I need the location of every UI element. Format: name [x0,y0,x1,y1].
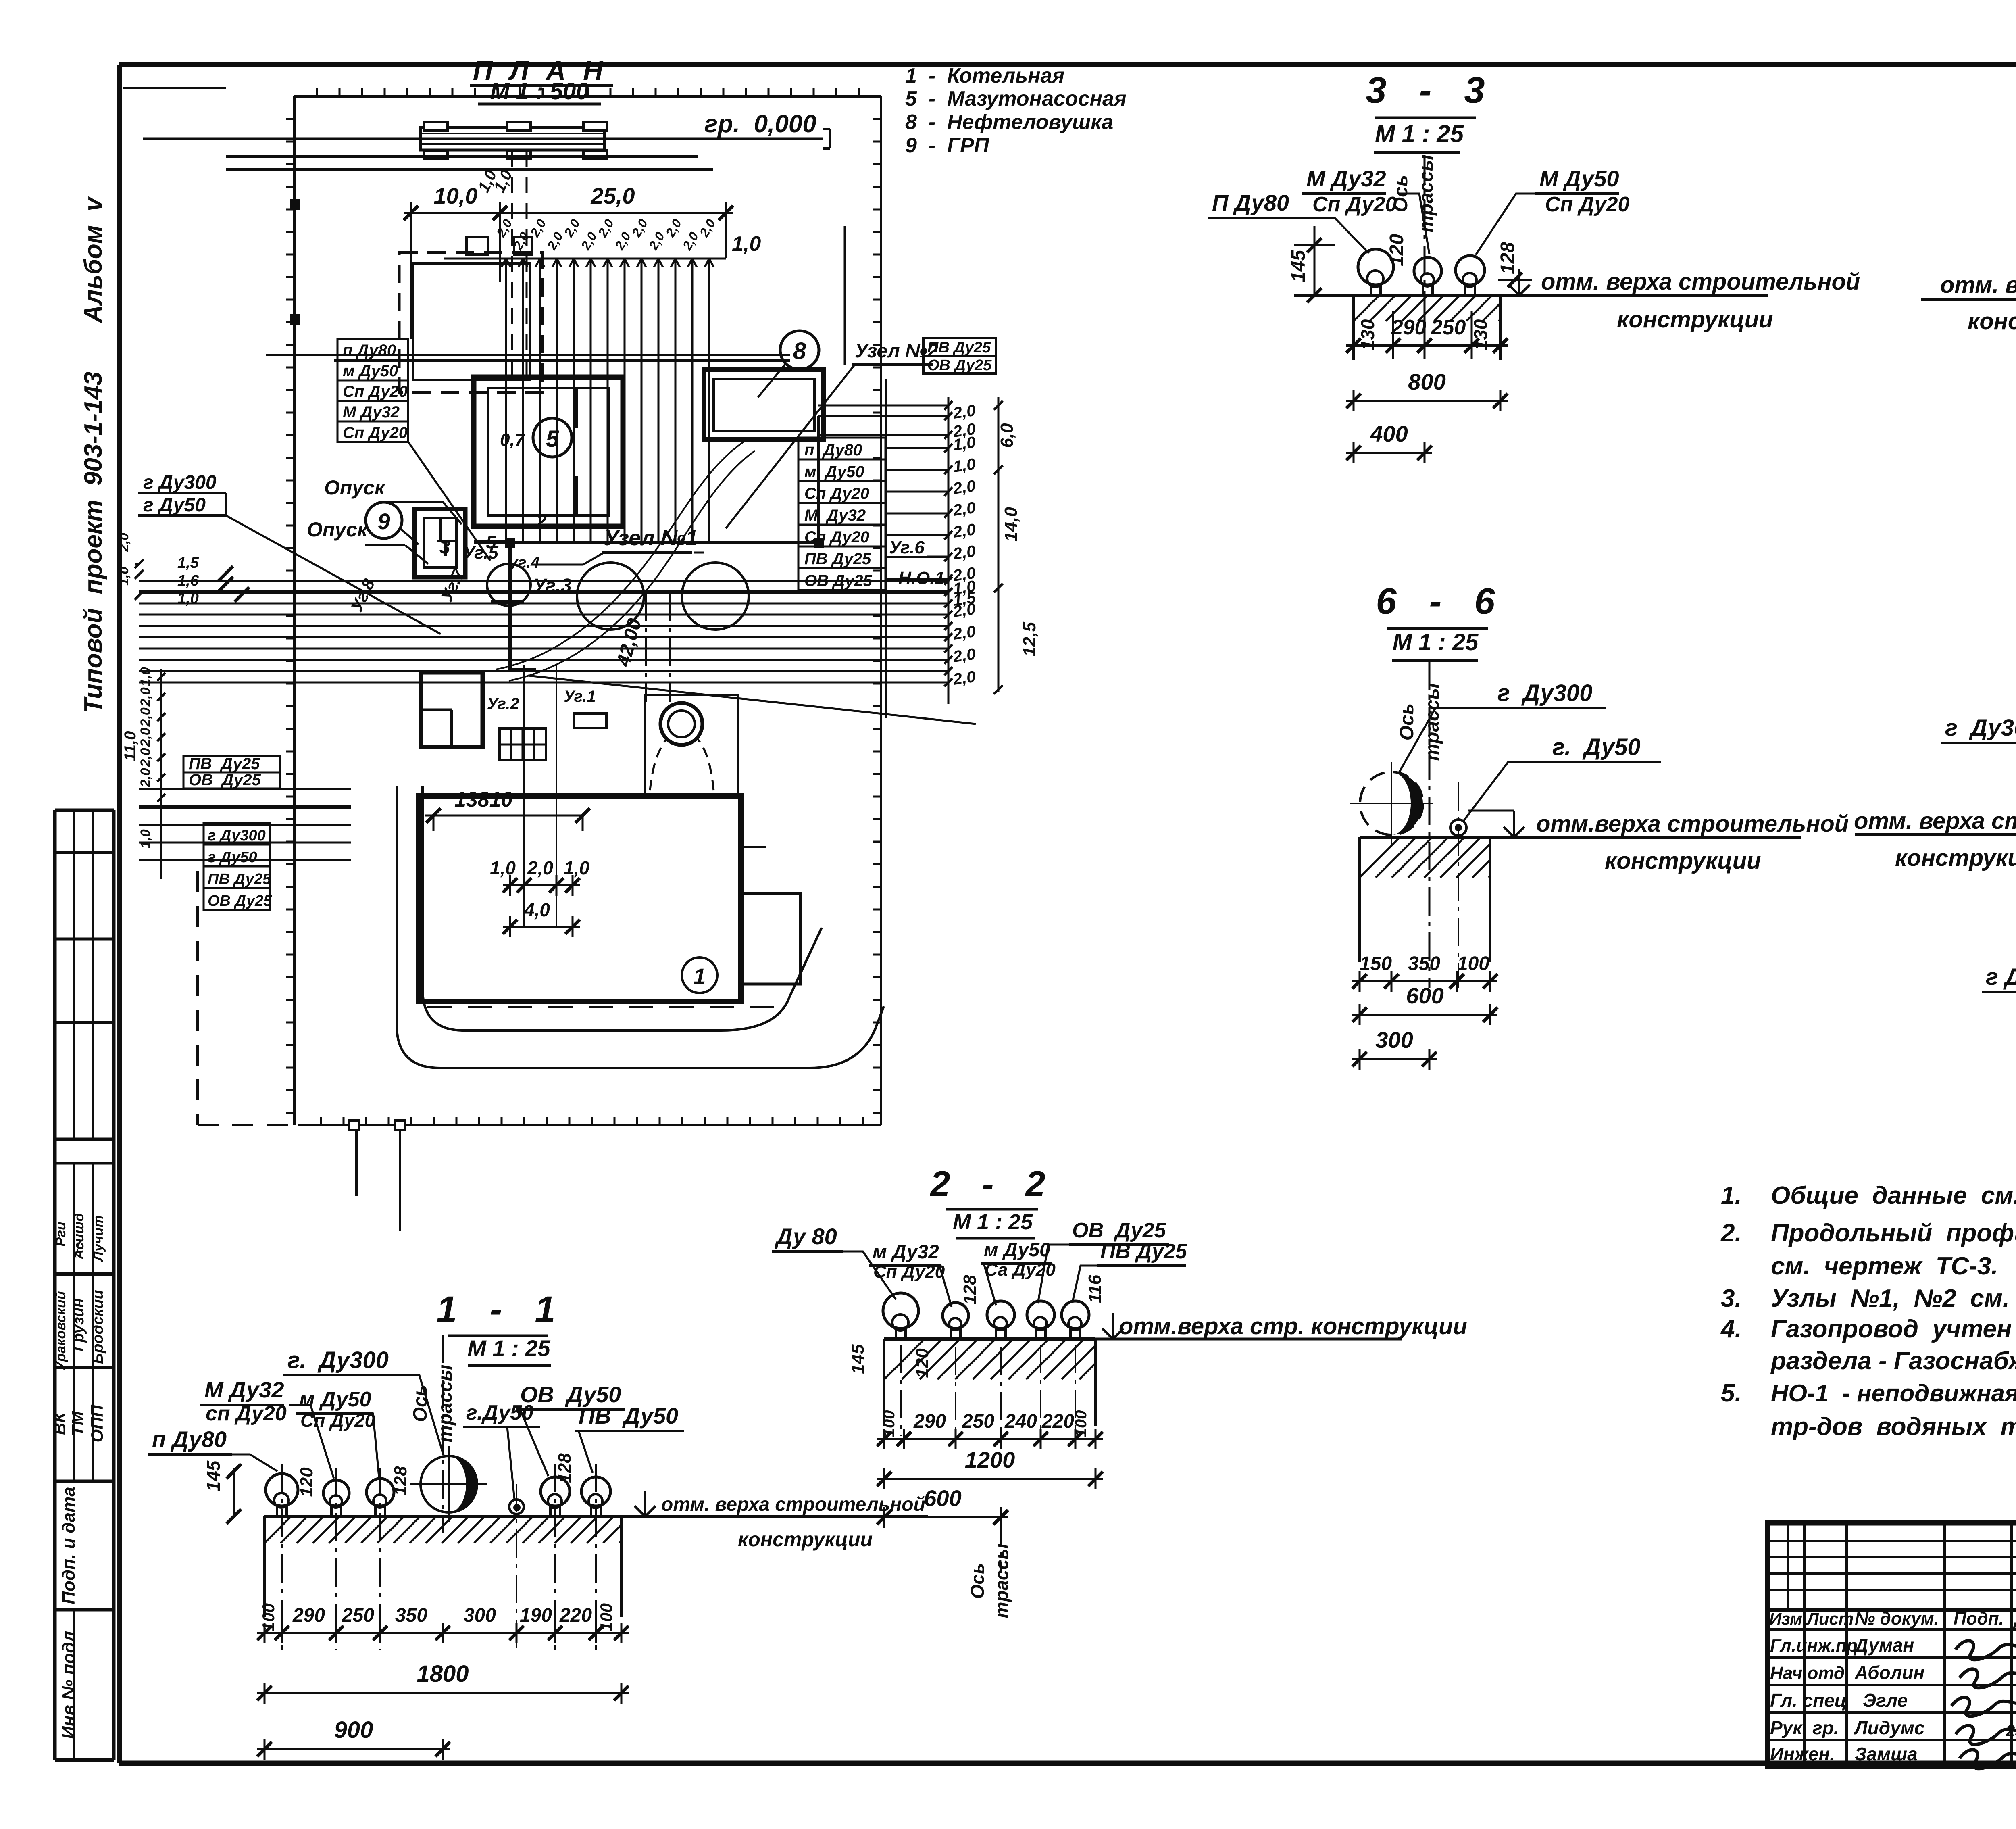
svg-text:Узлы №1, №2 см. чертеж ТС-: Узлы №1, №2 см. чертеж ТС-4. [1771,1285,2016,1312]
section 1-1 ground line [264,1515,928,1518]
section 1-1 dim 128 right [555,1453,575,1483]
svg-text:1,6: 1,6 [177,572,199,589]
svg-text:4,0: 4,0 [524,899,550,920]
svg-text:Продольный профиль тепловых: Продольный профиль тепловых сетей [1771,1219,2016,1247]
building 8 circle mark [758,331,819,397]
section 3-3 label P Du80 [1208,190,1369,253]
angle labels [347,511,948,713]
svg-text:Гл. спец: Гл. спец [1770,1690,1847,1711]
section 3-3 label M Du50 Sp Du20 [1476,166,1629,255]
building 5 Mazutonasosnaya [474,377,623,526]
svg-text:2,0: 2,0 [952,521,977,541]
section 1-1 pipe P Du80 [266,1464,298,1650]
svg-text:тр-дов водяных тепловых сет: тр-дов водяных тепловых сетей Ду50. [1771,1413,2016,1441]
svg-text:4.: 4. [1720,1315,1742,1343]
section 3-3 label M Du32 Sp Du20 [1302,166,1429,254]
section 2-2 dim 145 [848,1344,868,1374]
svg-text:1200: 1200 [965,1447,1015,1472]
svg-text:1 - 1: 1 - 1 [436,1289,559,1330]
svg-text:2,0: 2,0 [952,402,977,422]
svg-text:Опуск: Опуск [307,518,369,541]
svg-text:конструкции: конструкции [1605,848,1761,874]
section 2-2 ground line [884,1337,1402,1341]
svg-text:Аболин: Аболин [1854,1662,1924,1683]
svg-text:1 - Котельная: 1 - Котельная [905,64,1064,88]
svg-text:г Ду300: г Ду300 [208,827,266,844]
building 8 Nefteloovushka [704,370,824,440]
section 2-2 dim 120 [912,1348,932,1378]
svg-text:М 1 : 25: М 1 : 25 [1393,629,1479,655]
title block grid [1768,1523,2016,1766]
svg-text:НО-1 - неподвижная опора дл: НО-1 - неподвижная опора для крепления т… [1771,1380,2016,1407]
building 1 circle mark [682,957,717,993]
svg-text:М 1 : 500: М 1 : 500 [490,78,589,104]
opusk label 1 [324,476,462,524]
section 6-6 big pipe g Du300 [1350,762,1433,845]
section 3-3 pipe M Du32 [1414,257,1441,295]
leader to right stack [528,676,976,724]
svg-text:Сп Ду20: Сп Ду20 [1545,193,1629,216]
small sheds above building 5 [467,237,532,254]
svg-text:3.: 3. [1721,1285,1742,1312]
svg-text:М Ду32: М Ду32 [804,507,866,524]
svg-text:3 - 3: 3 - 3 [1366,70,1489,111]
section 3-3 title [1366,70,1489,152]
svg-text:М Ду50: М Ду50 [1539,166,1619,191]
boiler equipment above building 1 [645,695,738,795]
uzel no1 circles [577,563,749,630]
svg-text:трассы: трассы [435,1364,456,1442]
building dashed top-left [399,252,543,392]
section 1-1 dim 128 left [391,1466,410,1496]
section 2-2 label PV Du25 [1073,1240,1187,1302]
svg-text:2,0: 2,0 [527,857,553,878]
svg-text:П Ду80: П Ду80 [1212,190,1289,215]
svg-text:2,0: 2,0 [952,499,977,519]
plan legend [905,64,1127,157]
svg-text:130: 130 [1357,319,1378,350]
opusk label 2 [307,518,428,564]
road below railway [226,156,790,361]
svg-text:раздела - Газоснабжение.: раздела - Газоснабжение. [1770,1347,2016,1375]
dim 1,0 2,0 1,0 / 4,0 [490,665,589,937]
section 5-5 label g Du300 [1941,715,2016,786]
svg-text:250: 250 [1431,316,1466,339]
svg-text:г Ду50: г Ду50 [143,494,206,516]
section 2-2 label OV Du25 [1038,1219,1169,1303]
section 3-3 ground line [1294,294,1768,297]
section 2-2 label M Du32 [869,1241,952,1307]
building 9 GRP [414,509,465,577]
rotated dim 42.00 [612,593,670,702]
svg-text:Сп Ду20: Сп Ду20 [804,528,869,546]
svg-text:гр. 0,000: гр. 0,000 [704,110,816,138]
right label stack 7 rows [798,438,885,590]
svg-text:ПВ Ду25: ПВ Ду25 [927,339,991,356]
svg-text:1,0: 1,0 [732,232,761,256]
section 6-6 label g Du50 [1464,734,1661,821]
svg-text:ПВ Ду25: ПВ Ду25 [1100,1240,1187,1263]
svg-text:190: 190 [520,1605,552,1626]
svg-text:300: 300 [1375,1027,1413,1053]
site boundary fence right [873,96,881,1125]
main heat corridor bundle [139,581,948,682]
svg-text:М 1 : 25: М 1 : 25 [953,1210,1033,1234]
section 2-2 dim 1200 [877,1447,1103,1489]
section 5-5 label g Du50 [1982,830,2016,992]
section 3-3 axis of route [1390,154,1437,311]
svg-text:1.: 1. [1721,1182,1742,1210]
dim 13810 [425,788,590,831]
svg-text:Инжен.: Инжен. [1770,1743,1835,1764]
vertical pipe bundle from railway [444,217,726,542]
small tank grid [500,728,546,760]
svg-text:Изм.: Изм. [1769,1609,1807,1628]
svg-text:конструкции: конструкции [1968,308,2016,334]
svg-text:М Ду32: М Ду32 [343,403,400,421]
section 5-5 note otm verha [1854,808,2016,871]
svg-text:отм.верха строительной: отм.верха строительной [1536,811,1849,837]
margin text: Tipovoy proekt 903-1-143 [79,372,107,713]
section 1-1 dim 145 [203,1460,241,1524]
section 2-2 pipe P Du80 [883,1293,918,1436]
svg-text:ОВ Ду25: ОВ Ду25 [208,893,272,909]
svg-text:Уг.1: Уг.1 [564,688,596,705]
svg-text:Общие данные см. чертеж ТС: Общие данные см. чертеж ТС-1 . [1771,1182,2016,1210]
section 1-1 label g Du50 [463,1401,540,1499]
svg-text:Лист: Лист [1806,1609,1854,1628]
svg-text:м Ду50: м Ду50 [804,463,864,481]
gr 0.000 ground line [143,110,830,148]
section 3-3 note otm verha [1509,269,1860,333]
section 2-2 note otm verha str [1102,1313,1467,1339]
lower left label stack 4 rows [204,823,272,910]
section 3-3 dim 400 [1346,421,1432,463]
section 6-6 small pipe g Du50 [1450,782,1466,988]
section 3-3 dim chain 130-290-250-130 [1346,311,1508,359]
svg-text:250: 250 [962,1411,994,1432]
left label box 5 rows [337,339,490,561]
section 2-2 pipe M Du32 [943,1303,968,1436]
section 1-1 foundation hatch [264,1516,621,1617]
svg-text:128: 128 [1497,242,1518,274]
label N.O.1 [898,568,945,588]
svg-text:Бродский: Бродский [90,1290,106,1364]
sidebar signatures [53,1213,106,1371]
svg-text:2.: 2. [1720,1219,1742,1247]
section 1-1 label M Du50 [296,1388,379,1477]
small rect left of boiler [574,713,606,728]
section 1-1 label P Du80 [148,1426,277,1471]
svg-text:1,0: 1,0 [138,667,153,686]
svg-text:отм. верха строительной: отм. верха строительной [661,1494,925,1515]
svg-text:350: 350 [395,1605,427,1626]
svg-text:2,0: 2,0 [952,623,977,643]
svg-text:128: 128 [960,1275,980,1305]
upper right pipe stubs [818,379,948,718]
svg-text:отм. верха строит.: отм. верха строит. [1940,272,2016,298]
svg-text:Типовой проект 903-1-143: Типовой проект 903-1-143 [79,372,107,713]
svg-text:ОВ Ду25: ОВ Ду25 [804,572,872,590]
svg-text:290: 290 [1391,316,1427,339]
svg-text:Думан: Думан [1853,1635,1914,1656]
svg-text:220: 220 [559,1605,592,1626]
lower label box PV/OV Du25 [183,755,280,789]
fixed support squares [506,539,823,547]
svg-text:Сп Ду20: Сп Ду20 [1312,193,1397,216]
section 2-2 dim chain row [877,1410,1103,1449]
svg-text:1800: 1800 [417,1661,469,1687]
svg-text:1,0: 1,0 [138,829,153,848]
svg-text:Ду 80: Ду 80 [775,1224,837,1249]
sidebar stamp table [55,810,114,1760]
svg-text:Ось: Ось [967,1563,988,1599]
svg-text:№ докум.: № докум. [1855,1609,1939,1629]
svg-text:2,0: 2,0 [952,668,977,688]
svg-text:5: 5 [486,532,497,553]
section 6-6 foundation hatch [1360,837,1490,962]
svg-text:конструкции: конструкции [1895,845,2016,871]
svg-text:14,0: 14,0 [1001,507,1021,542]
svg-text:м Ду50: м Ду50 [984,1239,1050,1261]
svg-text:2,0: 2,0 [952,542,977,563]
svg-text:Сп Ду20: Сп Ду20 [343,424,408,442]
svg-text:Уг.3: Уг.3 [533,575,572,596]
svg-text:п Ду80: п Ду80 [804,441,862,459]
corridor thick line Ug5-Ug6 [474,416,818,670]
svg-text:конструкции: конструкции [738,1528,873,1551]
svg-text:2,0: 2,0 [952,645,977,666]
right side 2,0 dim column [944,397,1039,704]
svg-text:6 - 6: 6 - 6 [1376,581,1499,622]
svg-text:0,7: 0,7 [500,430,526,450]
svg-text:м Ду32: м Ду32 [873,1241,939,1263]
svg-text:100: 100 [880,1410,898,1437]
svg-text:ПВ Ду50: ПВ Ду50 [579,1403,678,1429]
section 6-6 title [1376,581,1499,661]
svg-text:1,5: 1,5 [177,555,199,571]
svg-text:г Ду300: г Ду300 [1497,680,1593,706]
svg-text:г Ду50: г Ду50 [208,849,257,866]
svg-text:Подп.: Подп. [1954,1609,2004,1629]
section 6-6 dim chain 150-350-100 [1352,953,1497,992]
section 3-3 dim 120 [1386,234,1408,266]
section 1-1 label g Du300 [283,1347,444,1455]
svg-text:145: 145 [848,1344,868,1374]
svg-text:130: 130 [1470,319,1491,350]
svg-text:М 1 : 25: М 1 : 25 [1375,120,1464,147]
section 1-1 pipe M Du50 [367,1468,394,1650]
svg-text:г Ду50: г Ду50 [1986,964,2016,990]
section 1-1 dim 1800 [257,1661,629,1704]
svg-text:400: 400 [1370,421,1408,446]
small pump building [421,672,483,747]
svg-text:350: 350 [1408,953,1440,974]
svg-text:ВК: ВК [50,1411,69,1435]
section 1-1 big pipe g Du300 [410,1446,487,1522]
svg-text:Лидумс: Лидумс [1854,1717,1924,1738]
svg-text:конструкции: конструкции [1617,307,1773,333]
svg-text:Ось: Ось [1396,703,1418,741]
Ug3 ellipse [487,564,572,606]
svg-text:Узел №2: Узел №2 [855,340,938,362]
svg-text:1,0: 1,0 [116,567,131,586]
svg-text:Замша: Замша [1855,1743,1918,1764]
small dims left of corridor [135,555,249,607]
svg-text:г. Ду50: г. Ду50 [1552,734,1641,760]
title block: roles [1770,1636,1858,1764]
svg-text:Н.О.1: Н.О.1 [898,568,945,588]
margin text: Album V [79,196,107,324]
svg-text:Рук. гр.: Рук. гр. [1770,1717,1839,1738]
svg-text:6,0: 6,0 [997,423,1017,448]
section 1-1 label PV Du50 [575,1403,684,1473]
section 1-1 label OV Du50 [516,1382,625,1476]
svg-text:Альбом v: Альбом v [79,196,107,324]
svg-text:1,0: 1,0 [177,590,199,607]
svg-text:Газопровод учтен в специфик: Газопровод учтен в спецификации [1771,1315,2016,1343]
building 1 Kotelnaya [419,796,800,1001]
section 2-2 dim 128 [960,1275,980,1305]
svg-text:2,0: 2,0 [952,477,977,498]
svg-text:240: 240 [1004,1411,1037,1432]
svg-text:ОВ Ду25: ОВ Ду25 [189,771,261,789]
svg-text:Асишд: Асишд [71,1213,87,1260]
section 3-3 dim 145 [1288,226,1335,302]
site boundary fence left [286,96,299,1125]
svg-text:25: 25 [2006,1722,2016,1740]
svg-text:сп Ду20: сп Ду20 [206,1402,287,1425]
svg-text:2,0: 2,0 [116,533,131,552]
svg-text:13810: 13810 [454,788,513,811]
svg-text:120: 120 [1386,234,1408,266]
svg-text:ПВ Ду25: ПВ Ду25 [189,755,260,773]
svg-text:600: 600 [924,1485,961,1511]
svg-text:Нач.отд: Нач.отд [1770,1663,1845,1683]
sidebar department labels [50,1405,106,1443]
section 2-2 foundation hatch [884,1339,1095,1426]
section 3-3 dim 800 [1346,369,1508,411]
uzel no1 label [533,526,704,565]
svg-text:ОВ Ду25: ОВ Ду25 [927,357,992,374]
svg-text:290: 290 [913,1411,946,1432]
section 2-2 dim 600 [877,1485,1008,1528]
left small dims 2,0 1,0 rows [116,533,144,600]
section 3-3 foundation hatch [1354,295,1500,360]
svg-text:Опуск: Опуск [324,476,386,499]
section 6-6 label g Du300 [1399,680,1606,772]
section 1-1 pipe PV Du50 [581,1464,610,1650]
svg-text:ОПП: ОПП [87,1405,106,1443]
railway crossing symbol [421,122,607,159]
svg-text:Рги: Рги [53,1222,69,1247]
svg-text:п Ду80: п Ду80 [152,1426,227,1452]
svg-text:г Ду300: г Ду300 [143,472,217,493]
svg-text:1,0: 1,0 [952,455,977,476]
fold line top-left [123,87,226,89]
svg-text:10,0: 10,0 [434,183,478,209]
svg-text:Сп Ду20: Сп Ду20 [873,1262,945,1282]
svg-text:9 - ГРП: 9 - ГРП [905,134,990,157]
svg-text:Ураковский: Ураковский [53,1291,69,1370]
section 4-4 ground line [1921,298,2016,301]
svg-text:116: 116 [1085,1274,1105,1303]
svg-text:12,5: 12,5 [1020,622,1039,657]
svg-text:трассы: трассы [991,1543,1012,1618]
svg-text:220: 220 [1041,1411,1074,1432]
section 1-1 pipe OV Du50 [541,1464,570,1650]
svg-text:Эгле: Эгле [1863,1690,1908,1711]
svg-text:150: 150 [1360,953,1392,974]
section 1-1 note otm verha [635,1491,925,1551]
svg-text:128: 128 [391,1466,410,1496]
svg-text:М Ду32: М Ду32 [204,1377,284,1402]
section 3-3 dim 128 [1497,242,1532,287]
svg-text:1,0: 1,0 [952,434,977,454]
sidebar cell Podp i data [59,1487,79,1604]
svg-text:900: 900 [334,1717,373,1743]
svg-text:290: 290 [292,1605,325,1626]
svg-text:2,0: 2,0 [138,748,153,767]
svg-text:Подп. и дата: Подп. и дата [59,1487,79,1604]
svg-text:ПВ Ду25: ПВ Ду25 [208,871,271,888]
section 2-2 label M Du50 [981,1239,1056,1305]
svg-text:м Ду50: м Ду50 [299,1388,371,1411]
svg-text:Уг.6: Уг.6 [889,538,925,557]
svg-text:Сп Ду20: Сп Ду20 [343,383,408,400]
section 2-2 title [930,1164,1050,1238]
svg-text:ОВ Ду25: ОВ Ду25 [1072,1219,1166,1242]
svg-text:Грузин: Грузин [70,1298,87,1351]
sidebar cell Inv No podl [59,1631,79,1739]
svg-text:Гл.инж.пр: Гл.инж.пр [1770,1636,1858,1656]
section 2-2 pipe M Du50 [987,1301,1014,1436]
svg-text:800: 800 [1408,369,1445,394]
section 6-6 dim 600 [1352,983,1497,1025]
svg-text:145: 145 [1288,250,1309,282]
svg-text:120: 120 [297,1467,317,1497]
section 1-1 pipe M Du32 [323,1468,349,1650]
exit road bottom [356,1130,400,1231]
svg-text:600: 600 [1406,983,1443,1008]
svg-text:Инв № подл: Инв № подл [59,1631,79,1739]
svg-text:п Ду80: п Ду80 [343,342,396,359]
section 2-2 label p Du80 [772,1224,896,1299]
svg-text:100: 100 [597,1603,616,1631]
svg-text:г Ду300: г Ду300 [1945,715,2016,741]
svg-text:1,0: 1,0 [564,857,589,878]
section 1-1 dim 900 [257,1717,450,1760]
section 1-1 dim chain row [257,1603,629,1643]
roads around building 1 [397,786,884,1068]
left dim column [121,667,165,879]
svg-text:отм. верха строительной: отм. верха строительной [1854,808,2016,834]
curved pipes to building 8 [496,440,755,681]
section 1-1 axis of route [410,1335,456,1533]
svg-text:8 - Нефтеловушка: 8 - Нефтеловушка [905,111,1113,134]
section 6-6 ground line [1360,836,1801,839]
section 4-4 note otm verha stroit [1940,272,2016,334]
svg-text:2,0: 2,0 [952,600,977,621]
section 6-6 axis of route [1396,661,1443,988]
section 1-1 small pipe g Du50 [509,1484,524,1650]
section 2-2 dim 116 [1085,1274,1105,1303]
lower left pipe bundle [139,789,351,860]
section 1-1 dim 120 [297,1467,317,1497]
svg-text:2,0: 2,0 [138,707,153,727]
svg-text:100: 100 [1457,953,1489,974]
section 5-5 ground line [1855,833,2016,836]
